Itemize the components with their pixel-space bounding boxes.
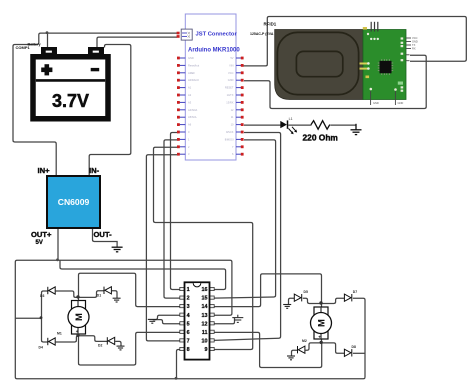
svg-text:GND: GND: [398, 101, 404, 105]
diode D1: [104, 287, 111, 294]
wire LED to resistor: [288, 124, 311, 126]
diode D4: [48, 338, 55, 345]
svg-text:A5/SCL: A5/SCL: [188, 115, 197, 119]
svg-text:TX: TX: [412, 43, 416, 47]
svg-text:L1: L1: [289, 117, 293, 121]
resistor 220 Ohm: [311, 121, 330, 130]
svg-text:GND: GND: [412, 40, 418, 44]
battery COMP1: [33, 47, 108, 119]
wire right bridge rails: [289, 298, 366, 377]
svg-text:D5: D5: [304, 290, 308, 294]
wire IC pin 5 to ground: [153, 320, 181, 324]
wire 5V bus to IC pin 13: [58, 260, 232, 315]
junction dot 5V split: [56, 258, 59, 261]
svg-text:7: 7: [187, 339, 190, 345]
wire left motor top arc to IC pin 3: [79, 273, 182, 306]
svg-text:A2: A2: [188, 93, 192, 97]
junction dots left bridge: [76, 295, 79, 298]
svg-text:COMP1: COMP1: [16, 45, 31, 50]
svg-text:OUT-: OUT-: [94, 230, 113, 239]
Arduino pins right: [225, 56, 244, 156]
Arduino MKR1000 U1: [185, 14, 240, 160]
svg-text:13: 13: [202, 313, 208, 319]
wire resistor to ground: [330, 124, 356, 126]
JST connector symbol: [177, 29, 193, 40]
svg-text:2: 2: [187, 296, 190, 302]
svg-text:IN-: IN-: [89, 166, 100, 175]
svg-text:GND: GND: [188, 56, 194, 60]
svg-text:JST Connector: JST Connector: [196, 31, 238, 37]
svg-text:+: +: [318, 334, 321, 339]
wire Arduino L12 to IC pin 2: [164, 140, 181, 298]
ground IC pins 4,5: [148, 319, 157, 323]
wire OUT+ 5V rail down-left-bottom to right bridge: [15, 229, 365, 379]
svg-text:RESET: RESET: [225, 86, 234, 90]
RFID chip: [378, 59, 393, 75]
wire CN6009 OUT- to ground: [93, 229, 118, 248]
svg-text:OUT+: OUT+: [31, 230, 52, 239]
wire battery- to JST: [97, 37, 177, 47]
svg-text:A0/DAC0: A0/DAC0: [188, 78, 199, 82]
svg-text:A4/SDA: A4/SDA: [188, 108, 197, 112]
svg-text:5: 5: [187, 321, 190, 327]
svg-text:3.7V: 3.7V: [52, 91, 89, 111]
svg-text:A3: A3: [188, 100, 192, 104]
ground D2: [117, 346, 125, 350]
svg-text:D8: D8: [352, 345, 356, 349]
RFID header pins: [370, 22, 379, 40]
svg-text:12: 12: [202, 321, 208, 327]
svg-text:8: 8: [187, 347, 190, 353]
motor M2: [311, 307, 332, 339]
svg-text:16: 16: [202, 287, 208, 293]
wire battery+ terminal stub: [47, 33, 49, 47]
svg-text:IN+: IN+: [38, 166, 51, 175]
ground D6: [287, 356, 295, 360]
diode D2: [107, 337, 114, 344]
ground OUT-: [112, 247, 123, 252]
ground D5: [283, 305, 291, 309]
wire Arduino R11 to IC pin 10: [214, 133, 281, 341]
motor M1: [68, 301, 89, 335]
wire Arduino R12 to IC pin 15: [214, 140, 276, 298]
diode D3: [48, 287, 55, 294]
wire Arduino L13 crossing to IC pin 9: [154, 147, 253, 349]
wire IC pin 4 to ground: [153, 315, 181, 319]
svg-text:11: 11: [202, 330, 208, 336]
svg-text:3: 3: [187, 304, 190, 310]
svg-text:D1: D1: [97, 293, 101, 297]
svg-text:VCC: VCC: [412, 36, 418, 40]
wire Arduino R4 to RFID right pin (bottom loop): [244, 55, 426, 108]
svg-text:A1: A1: [188, 86, 192, 90]
svg-text:M: M: [74, 313, 85, 321]
svg-text:VIN: VIN: [229, 63, 233, 67]
svg-text:5V: 5V: [36, 240, 43, 246]
wire 5V bus to IC pin 16: [60, 260, 226, 289]
svg-text:10: 10: [202, 339, 208, 345]
diode D6: [298, 346, 305, 353]
svg-text:5V: 5V: [230, 56, 233, 60]
LED L1: [280, 120, 297, 134]
CN6009 converter: [47, 176, 100, 228]
svg-text:M: M: [316, 319, 327, 327]
svg-text:D2: D2: [98, 343, 102, 347]
junction dot battery+: [46, 31, 49, 34]
svg-text:9/SCK: 9/SCK: [226, 130, 234, 134]
svg-text:RX: RX: [412, 47, 416, 51]
wire Arduino L14 to IC pin 7: [146, 155, 181, 341]
Arduino pins left: [177, 56, 199, 156]
svg-text:M1: M1: [57, 332, 62, 336]
diode D5: [294, 294, 301, 301]
wire Arduino R10 to LED: [244, 124, 281, 126]
RFID right edge stubs: [371, 36, 418, 105]
svg-text:Arduino MKR1000: Arduino MKR1000: [188, 48, 240, 54]
svg-text:14/TX: 14/TX: [227, 93, 234, 97]
junction dots right bridge: [319, 301, 322, 304]
ground IC pins 12,13: [232, 315, 243, 323]
svg-text:D7: D7: [353, 290, 357, 294]
svg-text:13/RX: 13/RX: [226, 100, 233, 104]
svg-text:AREF: AREF: [188, 71, 195, 75]
svg-text:D4: D4: [39, 346, 43, 350]
diode D8: [344, 349, 351, 356]
svg-text:CN6009: CN6009: [58, 197, 90, 207]
svg-text:4: 4: [187, 313, 190, 319]
svg-text:Reset/but: Reset/but: [188, 63, 199, 67]
RFID pads and details: [360, 27, 404, 92]
wire Arduino R1 to RFID right pin (top loop): [243, 17, 467, 66]
svg-text:D3: D3: [40, 294, 44, 298]
svg-text:15: 15: [202, 296, 208, 302]
wire battery- to CN6009 IN-: [89, 45, 131, 177]
ground D1: [113, 298, 121, 302]
svg-text:GND: GND: [228, 78, 234, 82]
svg-text:125AC-P (EVA: 125AC-P (EVA: [250, 32, 274, 36]
svg-text:A6: A6: [188, 123, 192, 127]
svg-text:8/MOSI: 8/MOSI: [225, 137, 234, 141]
RFID module RFID1: [275, 30, 406, 100]
svg-text:GND: GND: [373, 101, 379, 105]
junction dot bottom rail pin8: [175, 377, 178, 380]
svg-text:6: 6: [187, 330, 190, 336]
wire left bridge rails: [42, 291, 122, 346]
wire IC pin 11 to right motor bottom: [214, 332, 322, 367]
wire rail to left bridge: [15, 317, 41, 319]
svg-text:220 Ohm: 220 Ohm: [303, 133, 338, 143]
diode D7: [344, 294, 351, 301]
svg-text:M2: M2: [302, 339, 307, 343]
svg-text:14: 14: [202, 304, 208, 310]
wire bottom rail to IC pin 8: [177, 350, 182, 379]
wire IC pin 12 to ground: [215, 318, 235, 324]
wire IC pin 14 arc to right motor top: [214, 274, 322, 307]
IC U2 16-pin: [180, 282, 214, 359]
svg-text:+: +: [76, 329, 79, 334]
svg-text:1: 1: [187, 287, 190, 293]
wire left motor bottom arc to IC pin 6: [79, 332, 182, 365]
svg-text:RFID1: RFID1: [264, 21, 277, 26]
svg-text:VCC: VCC: [228, 71, 234, 75]
wire battery+ to JST (with IN+ rail): [13, 33, 177, 176]
svg-text:9: 9: [205, 347, 208, 353]
wire Arduino L11 to IC pin 1: [171, 133, 182, 290]
ground after resistor: [351, 124, 362, 135]
